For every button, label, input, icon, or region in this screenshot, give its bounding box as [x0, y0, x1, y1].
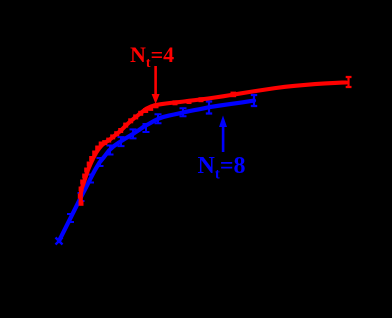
curve Nt=4 (red data line) — [81, 83, 347, 204]
arrow red (pointing down to red curve) — [152, 66, 160, 104]
svg-text:Nt=4: Nt=4 — [130, 42, 174, 71]
marker red end error bar (348.5,82) — [346, 77, 352, 87]
markers blue error-bar ticks — [67, 108, 187, 222]
curve Nt=8 (blue data line) — [59, 101, 254, 241]
svg-text:Nt=8: Nt=8 — [198, 153, 246, 183]
marker blue X endpoint — [56, 238, 63, 245]
marker blue error bar point (209,107) — [206, 102, 212, 114]
arrow blue (pointing up to blue curve) — [219, 116, 227, 153]
marker blue error bar end point (254,100.5) — [251, 95, 257, 106]
markers red squares with caps — [78, 92, 236, 206]
